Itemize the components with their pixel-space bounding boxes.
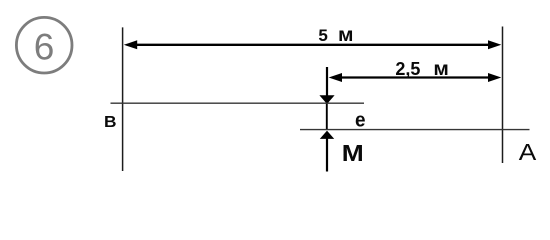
svg-text:А: А [519,139,537,165]
dimension line 2.5 m shaft [339,76,492,78]
svg-text:5: 5 [318,26,327,45]
downward force arrow shaft at midspan [326,67,328,96]
svg-text:е: е [355,110,366,132]
beam line M-A [300,129,530,131]
left vertical reference line (support B) [122,27,124,171]
svg-text:М: М [342,140,364,166]
svg-text:6: 6 [34,27,55,68]
dimension 5 m left arrowhead [124,40,137,49]
task number circle 6 [16,17,72,73]
svg-text:В: В [104,114,117,131]
force line segment between beam lines [326,104,328,131]
right vertical reference line (support A) [502,27,504,164]
svg-text:м: м [433,59,449,80]
upward force arrow head [320,131,334,139]
beam line B [111,102,365,104]
svg-text:м: м [338,25,354,46]
svg-text:2,5: 2,5 [395,59,420,79]
upward force arrow shaft [326,139,328,172]
dimension 5 m right arrowhead [488,40,501,49]
dimension line 5 m shaft [134,44,492,46]
downward force arrowhead [319,95,334,104]
dimension 2.5 m left arrowhead [329,73,342,82]
dimension 2.5 m right arrowhead [488,73,501,82]
